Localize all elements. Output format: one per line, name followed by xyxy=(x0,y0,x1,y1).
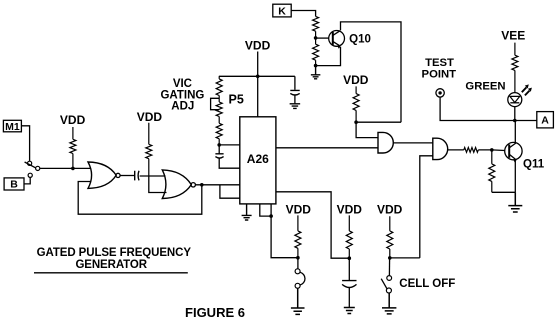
nor-gate U1B xyxy=(162,170,191,199)
ic A26 xyxy=(240,117,276,204)
resistor R11 (VDD to start node) xyxy=(295,215,301,257)
ground A26 pin xyxy=(242,204,252,220)
junction gate G1 input node xyxy=(354,120,358,124)
svg-text:VDD: VDD xyxy=(377,202,403,216)
svg-text:VDD: VDD xyxy=(337,202,363,216)
wire P5 node to capacitor C3 xyxy=(218,145,220,154)
ground below C4 xyxy=(344,308,355,314)
ground below C2 xyxy=(290,104,301,109)
resistor R1 (VDD pull-up to switch node) xyxy=(70,127,76,167)
wire NOR1 output to capacitor C1 xyxy=(120,175,134,177)
wire A26 right pin to C4 node xyxy=(276,192,349,258)
junction Q10 base node xyxy=(314,36,318,40)
junction output node xyxy=(513,119,517,123)
terminal box M1 xyxy=(3,120,21,132)
nor-gate U1A xyxy=(88,162,116,188)
svg-text:VDD: VDD xyxy=(343,73,369,87)
switch S1 contact b (B side) xyxy=(28,173,32,177)
resistor R8 (gate G2 output to Q11 base) xyxy=(448,148,492,153)
potentiometer P5 wiper strap xyxy=(211,98,220,109)
resistor R4 (bottom of P5 chain) xyxy=(216,117,222,145)
capacitor C2 (supply bypass) xyxy=(290,90,299,95)
wire feedback NOR2 output to NOR1 input xyxy=(78,182,202,215)
svg-text:VDD: VDD xyxy=(137,110,163,124)
resistor R3 (top of P5 chain) xyxy=(216,76,222,95)
svg-text:ADJ: ADJ xyxy=(171,101,194,113)
transistor Q10 body xyxy=(329,31,345,47)
wire A26 pin to gate G1 lower input xyxy=(276,147,378,149)
wire LED to collector node xyxy=(514,107,516,121)
and-gate G1 xyxy=(378,132,393,153)
wire CELL OFF line to gate G2 lower input xyxy=(420,156,433,258)
junction A26 top node xyxy=(256,75,260,79)
switch S3 (cell off) xyxy=(387,276,392,281)
wire base node to Q10 xyxy=(316,37,329,39)
wire top rail to P5 and C2 xyxy=(219,75,295,77)
nor-gate U1B output bubble xyxy=(191,183,195,187)
wire NOR2 output branch to A26 lower pin xyxy=(220,185,240,198)
wire P5 node to A26 pin xyxy=(219,144,240,146)
led DS1 emission arrows xyxy=(522,87,530,95)
wire M1 to switch contact xyxy=(21,126,29,161)
switch S1 blade xyxy=(25,162,36,168)
resistor R10 (VEE to LED) xyxy=(512,43,518,93)
title underline xyxy=(34,272,188,274)
switch S1 contact a (M1 side) xyxy=(28,161,32,165)
wire node down to gate G1 input xyxy=(356,122,378,137)
svg-text:GENERATOR: GENERATOR xyxy=(75,259,147,271)
svg-text:M1: M1 xyxy=(5,121,20,133)
pushbutton S2 (start) xyxy=(295,269,300,274)
resistor R5 (K to Q10 base) xyxy=(313,16,319,38)
wire top rail to capacitor C2 xyxy=(294,76,296,90)
wire node to Q10 collector line xyxy=(356,121,401,123)
resistor R12 (VDD to C4 node) xyxy=(346,215,352,258)
ground below S3 xyxy=(382,293,396,314)
junction start node xyxy=(296,256,300,260)
wire C4 node to capacitor xyxy=(348,258,350,280)
wire NOR2 output to A26 xyxy=(195,184,239,186)
junction cell-off node xyxy=(388,256,392,260)
wire Q11 emitter to ground rail xyxy=(492,191,516,193)
junction NOR2 output node xyxy=(200,183,204,187)
svg-text:Q11: Q11 xyxy=(523,158,545,170)
wire cell-off node to switch xyxy=(388,258,390,276)
potentiometer P5 element xyxy=(216,96,222,117)
wire A26 top pin xyxy=(257,76,259,117)
and-gate G2 xyxy=(433,138,448,159)
junction P5 node xyxy=(217,143,221,147)
svg-text:GATING: GATING xyxy=(160,89,204,101)
svg-text:VDD: VDD xyxy=(286,202,312,216)
wire B to switch contact xyxy=(24,178,30,184)
resistor R9 (Q11 base pull-down) xyxy=(489,150,495,192)
junction Q10 emitter node xyxy=(314,64,318,68)
svg-text:CELL OFF: CELL OFF xyxy=(399,278,455,290)
wire gate G1 output to gate G2 input xyxy=(393,142,433,144)
svg-text:VDD: VDD xyxy=(60,113,86,127)
terminal box K xyxy=(273,4,291,17)
test point TP1 xyxy=(436,89,444,97)
ground below Q11 xyxy=(508,192,522,212)
wire cell-off node to gate G2 xyxy=(390,257,420,259)
svg-text:VDD: VDD xyxy=(245,39,271,53)
led DS1 GREEN xyxy=(508,93,522,107)
wire C3 to A26 pin xyxy=(219,158,240,168)
wire VDD to A26 top node xyxy=(257,52,259,77)
wire start node to pushbutton xyxy=(297,258,299,269)
junction A26 bottom pins xyxy=(269,214,273,218)
svg-text:VIC: VIC xyxy=(173,78,192,90)
wire Q10 emitter return xyxy=(317,47,341,66)
svg-text:A26: A26 xyxy=(247,152,269,166)
junction C4 node xyxy=(348,256,352,260)
resistor R6 (Q10 base to emitter) xyxy=(313,38,319,66)
svg-text:A: A xyxy=(541,115,549,127)
wire C4 to ground xyxy=(348,288,350,307)
capacitor C4 xyxy=(342,281,356,288)
wire test point to output rail xyxy=(440,97,537,120)
svg-text:VEE: VEE xyxy=(501,28,525,42)
ground below R6 xyxy=(311,66,321,79)
svg-text:B: B xyxy=(10,179,18,191)
nor-gate U1A output bubble xyxy=(116,173,120,177)
junction switch-node xyxy=(71,167,75,171)
wire Q11 emitter xyxy=(514,160,516,192)
capacitor C1 (coupling) xyxy=(135,171,139,181)
terminal box A xyxy=(537,112,554,128)
ground below pushbutton xyxy=(291,288,305,314)
switch S1 pole contact xyxy=(36,166,40,170)
wire switch pole to NOR1 input rail xyxy=(40,167,91,169)
svg-text:K: K xyxy=(278,5,286,17)
transistor Q11 body xyxy=(505,142,522,159)
svg-text:POINT: POINT xyxy=(422,69,457,81)
terminal box B xyxy=(4,178,24,190)
svg-text:GREEN: GREEN xyxy=(465,81,505,93)
wire Q11 collector xyxy=(514,121,516,143)
wire base node to Q11 xyxy=(492,149,505,152)
wire C1 to NOR2 input xyxy=(140,175,166,177)
capacitor C3 (timing) xyxy=(215,154,223,158)
wire A26 bottom pin 2 down xyxy=(271,204,298,258)
wire NOR2 tied lower input xyxy=(149,176,167,193)
resistor R2 (VDD pull-up to NOR2 input) xyxy=(146,123,152,176)
svg-text:P5: P5 xyxy=(229,93,244,107)
wire A26 bottom pins tie xyxy=(260,204,271,216)
wire Q10 collector to node above gate1 xyxy=(341,22,402,122)
svg-text:TEST: TEST xyxy=(425,57,454,69)
svg-text:FIGURE 6: FIGURE 6 xyxy=(185,305,245,320)
junction Q11 base node xyxy=(490,148,494,152)
resistor R13 (VDD to cell-off node) xyxy=(387,216,393,258)
resistor R7 (VDD to gate G1 input) xyxy=(353,86,359,122)
wire C2 to ground xyxy=(294,95,296,103)
wire K to R5 xyxy=(291,11,315,17)
svg-text:GATED PULSE FREQUENCY: GATED PULSE FREQUENCY xyxy=(37,247,192,259)
svg-text:Q10: Q10 xyxy=(349,34,371,46)
